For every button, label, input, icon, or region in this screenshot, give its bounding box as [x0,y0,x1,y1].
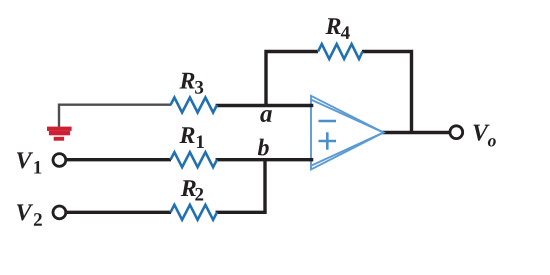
svg-text:R: R [325,14,342,40]
svg-text:4: 4 [341,23,351,44]
svg-text:V: V [15,148,33,174]
svg-text:R: R [178,123,195,149]
svg-text:R: R [179,68,196,94]
svg-text:2: 2 [33,210,43,231]
svg-text:1: 1 [33,157,43,178]
svg-text:2: 2 [194,185,204,206]
svg-text:o: o [488,130,497,150]
svg-text:a: a [260,101,273,128]
svg-text:3: 3 [194,78,204,99]
svg-text:1: 1 [195,132,205,153]
svg-text:b: b [257,135,269,161]
svg-text:V: V [15,200,33,226]
